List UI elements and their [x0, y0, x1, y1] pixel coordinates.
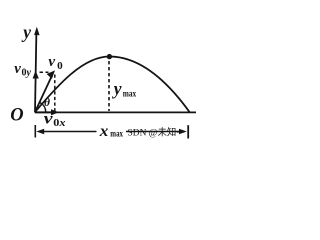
dimension right tick — [187, 125, 189, 138]
svg-text:y: y — [21, 22, 31, 42]
svg-text:θ: θ — [44, 97, 50, 109]
dimension line right segment — [126, 131, 181, 133]
vector v0 line — [35, 76, 52, 113]
vector v0x line — [35, 111, 52, 113]
svg-text:O: O — [10, 106, 23, 126]
dimension right arrowhead — [179, 129, 187, 135]
svg-text:y: y — [112, 78, 122, 98]
trajectory curve — [35, 57, 190, 113]
dimension left tick — [34, 125, 36, 138]
svg-text:x: x — [99, 123, 109, 140]
angle arc theta — [40, 103, 46, 112]
svg-text:max: max — [123, 90, 137, 100]
y-axis arrowhead — [34, 27, 40, 35]
svg-text:SDN @未知·: SDN @未知· — [128, 126, 180, 138]
svg-text:max: max — [110, 130, 123, 140]
x-axis line — [35, 111, 196, 113]
y-axis line — [35, 31, 36, 113]
vector v0x arrowhead on x-axis — [51, 109, 59, 115]
svg-text:0x: 0x — [53, 118, 65, 129]
svg-text:v: v — [48, 54, 55, 70]
svg-text:0y: 0y — [22, 68, 32, 79]
dashed vertical projection from v0 tip — [54, 75, 56, 112]
dashed vertical from apex to x-axis — [108, 61, 110, 111]
svg-text:v: v — [14, 61, 21, 77]
dimension left arrowhead — [36, 129, 44, 135]
apex dot — [107, 54, 112, 59]
vector v0 arrowhead — [47, 70, 55, 79]
dimension line left segment — [42, 131, 97, 133]
dashed horizontal projection at v0 tip — [40, 71, 49, 73]
vector v0y arrowhead on y-axis — [33, 71, 39, 79]
svg-text:0: 0 — [57, 60, 63, 72]
